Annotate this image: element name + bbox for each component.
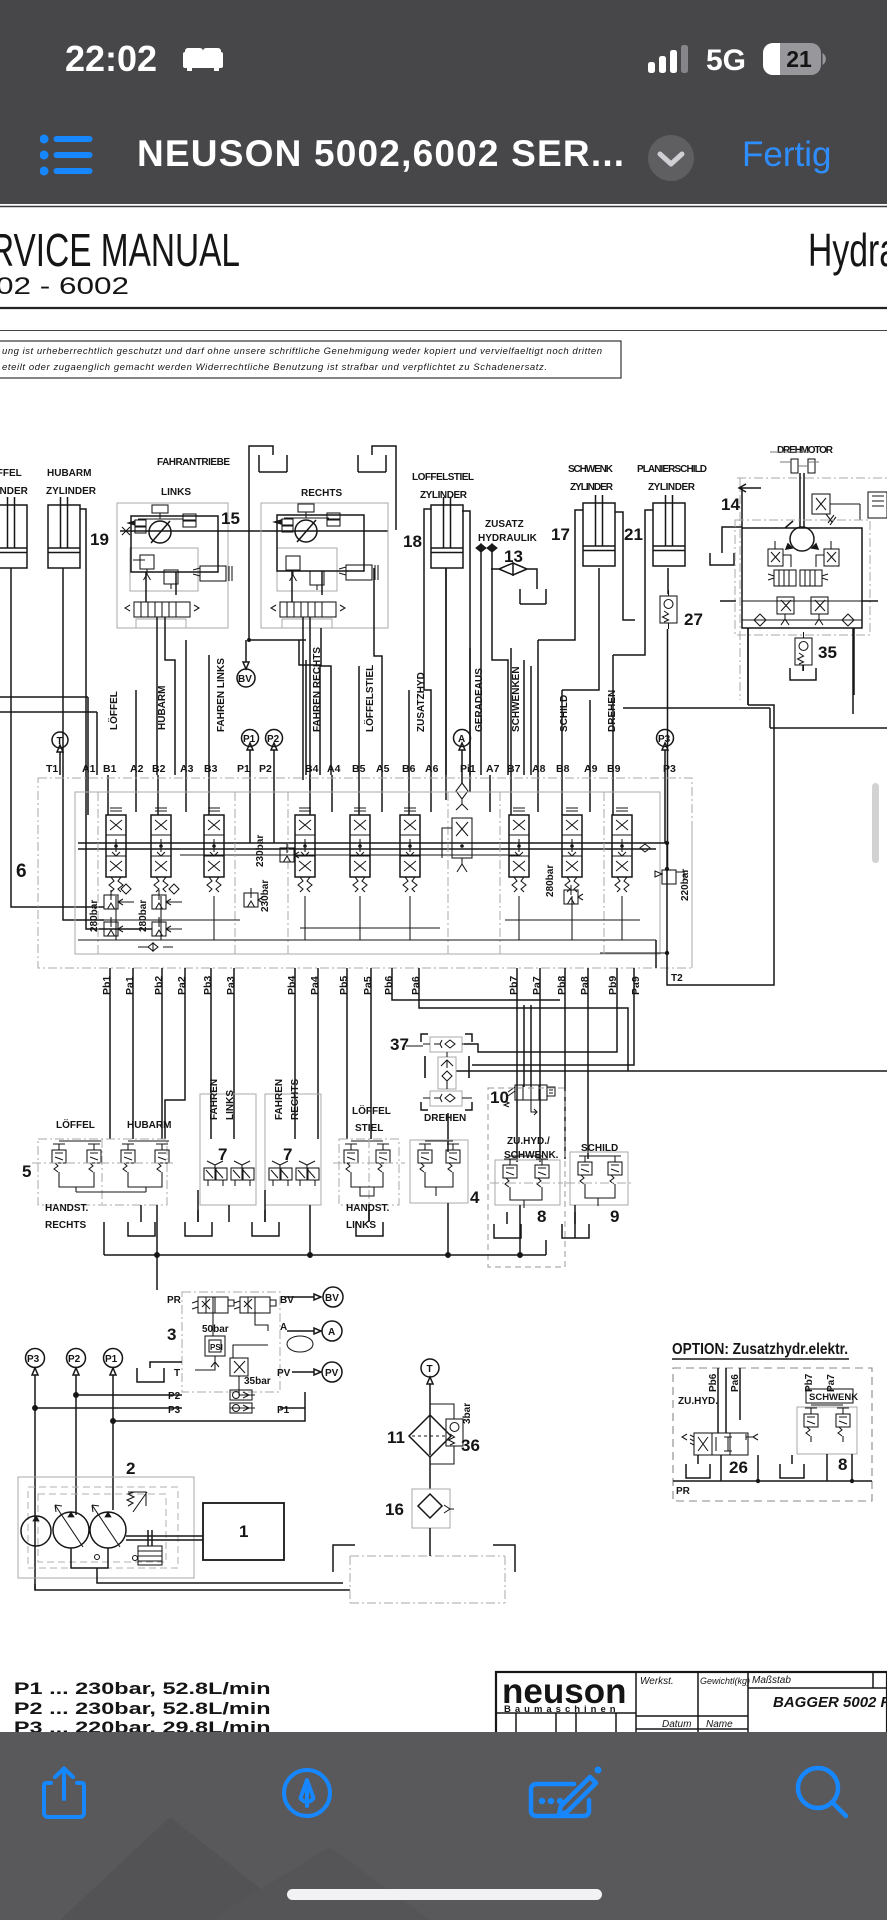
left return wires to T	[0, 697, 97, 775]
svg-text:FAHREN LINKS: FAHREN LINKS	[216, 658, 227, 732]
wires from LOEFFELSTIEL cylinder	[424, 509, 470, 800]
dash-dot boundary	[737, 478, 887, 700]
gauge component right	[868, 492, 887, 518]
svg-text:T1: T1	[46, 763, 58, 775]
travel drive LINKS unit 15	[117, 503, 388, 770]
svg-text:02 - 6002: 02 - 6002	[0, 273, 129, 300]
bottom toolbar	[0, 1732, 887, 1920]
tank symbol between drives 2	[358, 446, 396, 530]
pump P2	[53, 1505, 89, 1548]
shutoff valve 13	[491, 563, 537, 589]
svg-text:ung ist urheberrechtlich gesch: ung ist urheberrechtlich geschutzt und d…	[2, 346, 602, 357]
svg-text:RECHTS: RECHTS	[301, 488, 342, 499]
svg-text:Datum: Datum	[662, 1719, 691, 1730]
motor block frame	[742, 528, 862, 628]
pilot valve HUBARM b	[155, 1144, 169, 1178]
svg-text:SCHILD: SCHILD	[559, 695, 570, 732]
label LOEFFELSTIEL ZYLINDER	[412, 472, 474, 501]
tank symbols under pilot groups	[128, 1210, 589, 1238]
svg-text:A: A	[280, 1322, 287, 1333]
svg-text:T2: T2	[671, 973, 683, 984]
svg-text:T: T	[174, 1368, 180, 1379]
svg-text:ÖFFEL: ÖFFEL	[0, 466, 22, 479]
svg-text:P3 ... 220bar, 29.8L/min: P3 ... 220bar, 29.8L/min	[14, 1718, 271, 1732]
svg-text:eteilt oder zugaenglich gemach: eteilt oder zugaenglich gemacht werden W…	[2, 362, 547, 373]
svg-text:BV: BV	[238, 674, 252, 685]
label HUBARM ZYLINDER	[46, 468, 97, 497]
coupling stripes	[138, 1546, 162, 1565]
svg-text:36: 36	[461, 1436, 480, 1455]
svg-text:21: 21	[624, 525, 643, 544]
svg-text:A6: A6	[425, 763, 439, 775]
wires from PLANIERSCHILD cylinder	[613, 510, 668, 655]
spool DREHEN	[612, 808, 632, 892]
svg-text:LOFFELSTIEL: LOFFELSTIEL	[412, 472, 474, 483]
svg-text:LÖFFELSTIEL: LÖFFELSTIEL	[363, 665, 376, 732]
label SCHWENK ZYLINDER	[568, 464, 614, 493]
rule line 1	[0, 307, 887, 309]
svg-text:Pa1: Pa1	[124, 976, 136, 995]
svg-text:3: 3	[167, 1325, 176, 1344]
svg-text:3bar: 3bar	[462, 1403, 473, 1424]
svg-text:37: 37	[390, 1035, 409, 1054]
solenoid valve b	[234, 1297, 276, 1313]
svg-text:5: 5	[22, 1162, 31, 1181]
svg-text:HYDRAULIK: HYDRAULIK	[478, 533, 538, 544]
svg-text:HUBARM: HUBARM	[47, 468, 91, 479]
OPTION Zusatzhydr.elektr. module	[672, 1341, 872, 1501]
signal bars	[648, 44, 696, 76]
svg-text:Maßstab: Maßstab	[752, 1675, 791, 1686]
svg-text:PV: PV	[277, 1368, 291, 1379]
solenoid valve a	[192, 1297, 234, 1313]
brake release valve	[812, 494, 860, 525]
label LOEFFEL ZYLINDER	[0, 466, 29, 497]
svg-text:RECHTS: RECHTS	[290, 1079, 301, 1120]
svg-text:B9: B9	[607, 763, 621, 775]
svg-text:Pa9: Pa9	[630, 976, 642, 995]
node T circle top	[421, 1359, 439, 1377]
svg-text:A3: A3	[180, 763, 194, 775]
SCHWENK label box	[806, 1389, 858, 1403]
svg-text:8: 8	[838, 1455, 847, 1474]
right risers from motor block	[748, 628, 853, 714]
spool SCHILD	[562, 808, 582, 892]
cylinder SCHWENK 17	[583, 495, 615, 566]
pilot group 7 FAHREN RECHTS	[265, 1079, 321, 1205]
T2 drop	[655, 940, 657, 968]
svg-text:FAHREN: FAHREN	[209, 1079, 220, 1120]
svg-text:LÖFFEL: LÖFFEL	[107, 691, 120, 730]
long pilot supply line to right edge	[456, 1070, 887, 1072]
svg-text:35bar: 35bar	[244, 1376, 271, 1387]
5G label	[706, 44, 746, 78]
internal links	[195, 1297, 268, 1408]
pilot group 7 FAHREN LINKS	[200, 1079, 256, 1205]
wires Pb6/Pa6 down	[718, 1368, 740, 1433]
crossover relief right	[816, 541, 839, 567]
node P2 circle	[266, 730, 283, 776]
node BV circle	[323, 1287, 343, 1307]
spec text P1 P2 P3	[14, 1679, 271, 1737]
svg-text:Pb2: Pb2	[153, 976, 165, 995]
svg-text:LÖFFEL: LÖFFEL	[352, 1104, 391, 1117]
DREHMOTOR swing motor group 14	[710, 452, 887, 705]
PR return line	[673, 1480, 872, 1482]
geradeaus pressure valve	[442, 818, 472, 872]
svg-text:280bar: 280bar	[89, 900, 100, 932]
svg-text:ZU.HYD.: ZU.HYD.	[678, 1396, 718, 1407]
status + nav dark header	[0, 0, 887, 204]
svg-text:Pa5: Pa5	[362, 976, 374, 995]
filter 11	[387, 1415, 451, 1457]
svg-text:P1 ... 230bar, 52.8L/min: P1 ... 230bar, 52.8L/min	[14, 1679, 271, 1698]
svg-text:B8: B8	[556, 763, 570, 775]
riser to T	[427, 1377, 433, 1455]
svg-text:B2: B2	[152, 763, 166, 775]
valve 27	[660, 590, 703, 629]
svg-text:A5: A5	[376, 763, 390, 775]
svg-text:15: 15	[221, 509, 240, 528]
pilot return bus	[104, 1190, 575, 1290]
tank symbol between drives 1	[249, 446, 287, 640]
svg-text:4: 4	[470, 1188, 480, 1207]
svg-text:Pa3: Pa3	[225, 976, 237, 995]
svg-text:16: 16	[385, 1500, 404, 1519]
svg-text:14: 14	[721, 495, 740, 514]
svg-text:2: 2	[126, 1459, 135, 1478]
svg-text:Pb6: Pb6	[383, 976, 395, 995]
drain dots	[95, 1555, 138, 1561]
wires out of LINKS block	[157, 617, 175, 770]
svg-text:OPTION: Zusatzhydr.elektr.: OPTION: Zusatzhydr.elektr.	[672, 1341, 848, 1358]
block rails	[742, 601, 862, 620]
swing motor circle	[785, 521, 818, 551]
tank under 35	[790, 665, 816, 680]
tank left of unit 3	[269, 1384, 271, 1386]
iOS scroll indicator	[872, 783, 879, 863]
svg-text:ZYLINDER: ZYLINDER	[648, 482, 696, 493]
svg-text:P2 ... 230bar, 52.8L/min: P2 ... 230bar, 52.8L/min	[14, 1699, 271, 1718]
rail junction dots	[114, 844, 624, 848]
svg-text:Werkst.: Werkst.	[640, 1676, 674, 1687]
status time	[65, 38, 157, 80]
svg-text:Pb3: Pb3	[202, 976, 214, 995]
node BV circle	[237, 669, 255, 687]
pump outlet lines to tank	[35, 1548, 350, 1590]
relief 220bar end	[655, 869, 691, 901]
svg-text:27: 27	[684, 610, 703, 629]
title block	[496, 1672, 887, 1744]
motor shaft coupling	[770, 452, 819, 473]
markup box icon	[528, 1762, 604, 1822]
spool bottom stubs	[116, 896, 622, 940]
svg-text:220bar: 220bar	[680, 869, 691, 901]
pilot group 8 ZU.HYD/SCHWENK	[488, 1088, 565, 1267]
relief 280bar sec2	[138, 884, 182, 936]
svg-text:1: 1	[239, 1522, 248, 1541]
svg-text:FAHREN: FAHREN	[274, 1079, 285, 1120]
svg-text:SCHWENK: SCHWENK	[568, 464, 614, 475]
svg-text:B5: B5	[352, 763, 366, 775]
sleep/bed icon	[183, 46, 223, 74]
small check at bottom left	[138, 943, 173, 951]
svg-text:P3: P3	[168, 1405, 181, 1416]
pilot group 9 SCHILD	[566, 1143, 632, 1226]
valve 35	[795, 632, 837, 671]
top port labels	[46, 763, 676, 775]
taps from P risers into unit 3	[33, 1392, 305, 1423]
search icon	[794, 1764, 852, 1822]
svg-text:HUBARM: HUBARM	[157, 686, 168, 730]
cell dividers	[496, 1672, 887, 1742]
spool SCHWENKEN	[509, 808, 529, 892]
35bar valve	[230, 1358, 271, 1387]
pilot wire 14	[722, 484, 761, 553]
option dashed frame	[673, 1368, 872, 1501]
svg-text:STIEL: STIEL	[355, 1123, 383, 1134]
svg-text:21: 21	[786, 46, 812, 72]
shuttle block 37	[390, 1034, 472, 1110]
wire from HUBARM cylinder down	[63, 568, 104, 920]
engine 1	[203, 1503, 284, 1560]
tank under valve 13	[520, 589, 546, 604]
svg-text:Pb5: Pb5	[338, 976, 350, 995]
BV arrow	[284, 1294, 321, 1300]
brake shuttle block bottom	[125, 602, 199, 628]
svg-text:YLINDER: YLINDER	[0, 486, 29, 497]
svg-text:PSI: PSI	[210, 1343, 223, 1352]
svg-text:A4: A4	[327, 763, 341, 775]
svg-text:BV: BV	[325, 1293, 339, 1304]
svg-text:T: T	[427, 1364, 433, 1375]
svg-text:A9: A9	[584, 763, 598, 775]
svg-text:PLANIERSCHILD: PLANIERSCHILD	[637, 464, 707, 475]
svg-text:8: 8	[537, 1207, 546, 1226]
svg-text:P1: P1	[237, 763, 250, 775]
pilot group HANDST LINKS (LOEFFELSTIEL / DREHEN)	[333, 1104, 405, 1231]
label ZUSATZ HYDRAULIK	[478, 519, 538, 544]
P riser wires with arrows	[32, 1368, 116, 1590]
feeder wires into block ports	[63, 568, 665, 920]
svg-text:26: 26	[729, 1458, 748, 1477]
svg-text:A8: A8	[532, 763, 546, 775]
bypass valve 36	[430, 1403, 480, 1464]
spool LOEFFEL	[106, 808, 126, 892]
svg-text:BAGGER 5002 R: BAGGER 5002 R	[773, 1694, 887, 1711]
drive shaft	[126, 1530, 203, 1546]
document title	[137, 133, 625, 175]
svg-text:Hydra: Hydra	[808, 224, 887, 276]
pilot valve LOEFFEL b	[87, 1144, 101, 1178]
svg-text:9: 9	[610, 1207, 619, 1226]
home indicator	[287, 1889, 602, 1900]
travel LINKS main rail with end arrows	[120, 530, 388, 532]
svg-text:HANDST.: HANDST.	[346, 1203, 390, 1214]
cylinder LOEFFEL (19 group, cropped)	[0, 497, 27, 568]
internal pressure rails	[78, 843, 667, 849]
svg-text:DREHMOTOR: DREHMOTOR	[777, 445, 834, 456]
anti-cav relief left	[777, 597, 794, 625]
rocker bars	[59, 1140, 169, 1142]
svg-text:280bar: 280bar	[138, 900, 149, 932]
spool ZUSATZHYD	[400, 808, 420, 892]
relief 280bar schwenk	[545, 865, 583, 904]
svg-text:SCHWENK: SCHWENK	[809, 1392, 858, 1403]
P circles row	[26, 1349, 45, 1368]
pilot valve LOEFFEL a	[52, 1144, 66, 1178]
node A circle	[454, 730, 471, 776]
quick couplers ZUSATZ	[476, 544, 497, 700]
check valves	[230, 1390, 252, 1400]
bottom port labels rotated	[101, 976, 642, 995]
center valve striped left	[768, 570, 796, 586]
svg-text:Gewichtl(kg): Gewichtl(kg)	[700, 1676, 750, 1686]
pilot supply unit 3	[137, 1287, 343, 1416]
svg-text:6: 6	[16, 861, 27, 882]
svg-text:Pa7: Pa7	[531, 976, 543, 995]
svg-text:P2: P2	[68, 1354, 81, 1365]
regulator spring	[127, 1492, 147, 1512]
Fertig button	[742, 135, 831, 175]
svg-text:Name: Name	[706, 1719, 733, 1730]
chevron circle	[647, 134, 695, 182]
svg-text:Baumaschinen: Baumaschinen	[504, 1704, 620, 1715]
50bar PSI reducer	[202, 1324, 229, 1367]
svg-text:Pb8: Pb8	[556, 976, 568, 995]
svg-text:A7: A7	[486, 763, 500, 775]
pilot valve HUBARM a	[121, 1144, 135, 1178]
svg-text:FAHREN RECHTS: FAHREN RECHTS	[312, 647, 323, 732]
pump P1	[90, 1505, 126, 1548]
list icon	[40, 133, 94, 179]
copyright box	[0, 341, 621, 378]
wire 16 to reservoir	[429, 1528, 431, 1556]
battery 21	[763, 43, 831, 77]
svg-text:Pb4: Pb4	[286, 976, 298, 995]
svg-text:P2: P2	[259, 763, 272, 775]
rule line 2	[0, 330, 887, 332]
check valve 16	[385, 1489, 454, 1528]
svg-text:RECHTS: RECHTS	[45, 1220, 86, 1231]
relief 230bar center	[244, 835, 299, 912]
svg-text:P1: P1	[277, 1405, 290, 1416]
markup pen circle icon	[281, 1767, 333, 1819]
P3 pilot network lines to right edge	[623, 708, 887, 728]
svg-text:HUBARM: HUBARM	[127, 1120, 171, 1131]
wires from block bottom ports to pilot units	[110, 968, 634, 1162]
svg-text:B1: B1	[103, 763, 117, 775]
svg-text:230bar: 230bar	[255, 835, 266, 867]
wire filter to 16	[429, 1457, 431, 1489]
svg-text:Pb7: Pb7	[508, 976, 520, 995]
svg-text:Pa8: Pa8	[579, 976, 591, 995]
svg-text:280bar: 280bar	[545, 865, 556, 897]
svg-text:B7: B7	[507, 763, 521, 775]
svg-text:LINKS: LINKS	[225, 1090, 236, 1120]
spool FAHREN RECHTS	[295, 808, 315, 892]
motor block drop wires	[748, 628, 854, 705]
svg-text:LINKS: LINKS	[346, 1220, 376, 1231]
svg-text:17: 17	[551, 525, 570, 544]
svg-text:PV: PV	[325, 1368, 339, 1379]
svg-text:P3: P3	[663, 763, 676, 775]
relief 280bar sec1	[89, 884, 134, 936]
svg-text:Pa6: Pa6	[410, 976, 422, 995]
wire below valve 27	[667, 629, 669, 869]
tank under 14 wire	[710, 553, 734, 565]
spool LOEFFELSTIEL	[350, 808, 370, 892]
travel drive RECHTS unit 18	[261, 503, 388, 790]
svg-text:A: A	[328, 1327, 335, 1338]
svg-text:ZUSATZHYD: ZUSATZHYD	[416, 672, 427, 732]
cylinder PLANIERSCHILD 21	[653, 495, 685, 566]
svg-text:11: 11	[387, 1428, 405, 1447]
check diamonds	[754, 614, 854, 626]
svg-text:19: 19	[90, 530, 109, 549]
svg-text:PR: PR	[167, 1295, 182, 1306]
reservoir boundary	[333, 1545, 515, 1603]
svg-text:ZUSATZ: ZUSATZ	[485, 519, 524, 530]
svg-text:PR: PR	[676, 1486, 691, 1497]
wire from HUBARM head side	[80, 509, 152, 929]
svg-text:SCHWENKEN: SCHWENKEN	[511, 666, 522, 732]
spool HUBARM	[151, 808, 171, 892]
node P1 circle	[242, 730, 259, 776]
solenoid valve 10	[490, 1085, 555, 1115]
pilot group 4 DREHEN	[410, 1113, 480, 1207]
svg-text:GERADEAUS: GERADEAUS	[474, 668, 485, 732]
svg-text:B4: B4	[305, 763, 319, 775]
svg-text:SCHILD: SCHILD	[581, 1143, 618, 1154]
anti-cav relief right	[811, 597, 828, 625]
pedal valve pair	[204, 1161, 227, 1186]
wires out of RECHTS block	[303, 617, 331, 790]
label PLANIERSCHILD ZYLINDER	[637, 464, 707, 493]
svg-text:35: 35	[818, 643, 837, 662]
tank right option	[780, 1455, 804, 1478]
svg-text:18: 18	[403, 532, 422, 551]
solenoid valve 26	[682, 1433, 758, 1455]
rotated feed labels	[107, 647, 618, 732]
cylinder LOEFFELSTIEL 18	[431, 497, 463, 568]
tank left option	[686, 1455, 710, 1478]
svg-text:50bar: 50bar	[202, 1324, 229, 1335]
pilot group 5 HANDST RECHTS	[22, 1118, 173, 1231]
svg-text:Pi1: Pi1	[460, 763, 476, 775]
cylinder HUBARM 19	[48, 497, 80, 568]
accumulator	[287, 1336, 313, 1352]
svg-text:Pb1: Pb1	[101, 976, 113, 995]
node T circle	[52, 732, 68, 775]
svg-text:A2: A2	[130, 763, 144, 775]
BV drop wire and arrow	[243, 638, 306, 669]
svg-text:P2: P2	[168, 1391, 181, 1402]
white PDF content	[0, 204, 887, 1732]
svg-text:FAHRANTRIEBE: FAHRANTRIEBE	[157, 457, 230, 468]
crossover relief left	[768, 541, 791, 567]
gear pump P3	[21, 1516, 51, 1546]
wires from SCHWENK cylinder	[538, 510, 635, 690]
svg-text:RVICE MANUAL: RVICE MANUAL	[0, 224, 240, 276]
spool FAHREN LINKS	[204, 808, 224, 892]
block outer boundary	[38, 778, 692, 968]
geradeaus check + valve above block	[456, 783, 468, 810]
svg-text:ZYLINDER: ZYLINDER	[46, 486, 97, 497]
shaft double line	[800, 473, 804, 528]
svg-text:B6: B6	[402, 763, 416, 775]
A arrow + circle	[287, 1328, 321, 1334]
